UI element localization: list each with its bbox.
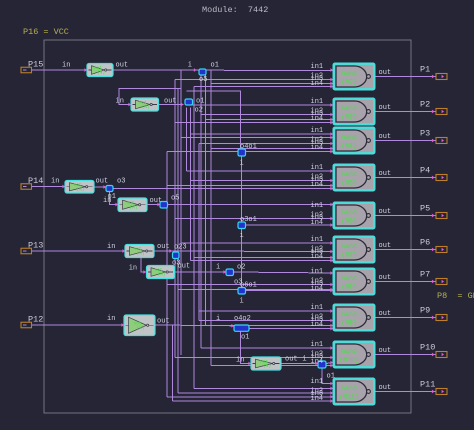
wire inv1 output row to gate1 in1 <box>113 69 333 72</box>
svg-text:i: i <box>240 160 244 168</box>
svg-text:P3: P3 <box>420 129 430 139</box>
NAND gate U5 -> P5 <box>333 202 375 229</box>
svg-text:nand: nand <box>341 134 357 141</box>
svg-text:(N): (N) <box>157 272 165 278</box>
svg-text:P7: P7 <box>420 270 430 280</box>
svg-text:nand: nand <box>341 171 357 178</box>
output port P1 <box>420 65 447 80</box>
svg-text:(N4): (N4) <box>341 143 357 150</box>
svg-text:nand: nand <box>341 70 357 77</box>
svg-text:in4: in4 <box>311 80 324 88</box>
svg-text:in1: in1 <box>311 63 324 71</box>
svg-text:in1: in1 <box>311 98 324 106</box>
svg-text:in1: in1 <box>311 127 324 135</box>
svg-text:in4: in4 <box>311 144 324 152</box>
svg-text:out: out <box>96 178 109 186</box>
input port P15 <box>21 60 43 73</box>
inverter V6 <box>147 266 175 279</box>
svg-text:o2: o2 <box>237 264 245 272</box>
input port P12 <box>21 315 43 328</box>
svg-text:P10: P10 <box>420 343 435 353</box>
svg-text:in4: in4 <box>311 321 324 329</box>
output port P4 <box>420 166 447 181</box>
NAND gate U3 -> P3 <box>333 127 375 154</box>
svg-text:P6: P6 <box>420 238 430 248</box>
svg-text:nand: nand <box>341 385 357 392</box>
svg-text:in: in <box>107 315 115 323</box>
output port P6 <box>420 238 447 253</box>
svg-text:o1: o1 <box>241 334 249 342</box>
output port P7 <box>420 270 447 285</box>
svg-text:nand: nand <box>341 209 357 216</box>
svg-text:(N): (N) <box>76 186 84 192</box>
wire gate10 out to P11 <box>375 391 436 393</box>
svg-text:in: in <box>236 357 244 365</box>
inverter V3 (P14 chain) <box>65 181 94 194</box>
wire P13 input row <box>32 250 126 252</box>
wire tap to inv2 <box>119 70 181 105</box>
svg-text:in: in <box>116 98 124 106</box>
svg-text:out: out <box>157 243 170 251</box>
wire connector o1 row to gate2 in1 <box>191 104 333 106</box>
svg-text:P1: P1 <box>420 65 430 75</box>
wire trunk net I <box>193 87 195 389</box>
svg-text:out: out <box>178 263 191 271</box>
svg-text:in1: in1 <box>311 378 324 386</box>
svg-text:Module: 7442: Module: 7442 <box>202 5 268 15</box>
net connector cb5 o1 <box>173 252 180 259</box>
svg-text:(N11): (N11) <box>339 394 359 401</box>
output port P11 <box>420 380 447 395</box>
svg-text:P12: P12 <box>28 315 43 325</box>
svg-text:i: i <box>240 232 244 240</box>
wire P14 input row <box>32 186 66 188</box>
input port P13 <box>21 241 43 254</box>
wire gate1 out to P1 <box>375 76 436 78</box>
svg-text:out: out <box>379 69 392 77</box>
wire connector down to inv4 <box>110 190 119 205</box>
svg-text:P9: P9 <box>420 306 430 316</box>
svg-text:P16 = VCC: P16 = VCC <box>23 27 69 37</box>
svg-text:o4o2: o4o2 <box>234 315 251 323</box>
wire gate2 out to P2 <box>375 111 436 113</box>
wire trunk net K <box>200 74 202 349</box>
svg-text:out: out <box>116 62 129 70</box>
schematic frame <box>44 40 411 413</box>
wire inv8 out to connector <box>281 363 318 365</box>
svg-text:i: i <box>240 298 244 306</box>
wire trunk net H <box>190 108 192 261</box>
svg-text:in: in <box>51 178 59 186</box>
svg-text:(N): (N) <box>263 363 271 369</box>
svg-text:o1: o1 <box>196 98 204 106</box>
wire connector down to inv8 <box>241 330 252 364</box>
net connector cb6 o1 <box>226 269 234 276</box>
svg-text:(N2): (N2) <box>341 79 357 86</box>
svg-text:nand: nand <box>341 275 357 282</box>
svg-text:i: i <box>302 356 306 364</box>
svg-text:in: in <box>62 62 70 70</box>
svg-text:P15: P15 <box>28 60 43 70</box>
svg-text:out: out <box>157 318 170 326</box>
NAND gate U4 -> P4 <box>333 164 375 191</box>
svg-text:o4o1: o4o1 <box>240 143 257 151</box>
svg-text:i: i <box>188 62 192 70</box>
wire trunk net M <box>210 71 212 366</box>
svg-text:P14: P14 <box>28 176 43 186</box>
net connector cb7 o1 wide <box>234 325 249 331</box>
wire tap to inv6 <box>141 251 146 272</box>
wire nD row to gate8 in4 <box>249 328 333 330</box>
svg-text:o1: o1 <box>211 62 219 70</box>
NAND gate U1 -> P1 <box>333 63 375 90</box>
wire connector down to gate10 in1 <box>322 368 333 384</box>
svg-text:in4: in4 <box>311 358 324 366</box>
wire inv5 out row to gate6 in2 <box>154 250 333 253</box>
svg-text:in: in <box>107 243 115 251</box>
svg-text:out: out <box>379 347 392 355</box>
svg-text:(N3): (N3) <box>341 114 357 121</box>
svg-text:nand: nand <box>341 311 357 318</box>
output port P10 <box>420 343 447 358</box>
svg-text:o1: o1 <box>327 373 335 381</box>
svg-text:in: in <box>103 197 111 205</box>
svg-text:o5: o5 <box>199 76 207 84</box>
svg-text:in4: in4 <box>311 219 324 227</box>
inverter V8 <box>251 357 281 370</box>
wire P15 input row <box>32 69 88 71</box>
wire trunk net D <box>172 325 174 401</box>
NAND gate U9 -> P10 <box>333 341 375 368</box>
wire P12 input row <box>32 324 125 326</box>
svg-text:(N): (N) <box>142 104 150 110</box>
svg-text:out: out <box>164 98 177 106</box>
svg-text:(N6): (N6) <box>341 218 357 225</box>
svg-text:o23: o23 <box>174 244 187 252</box>
svg-text:(N10): (N10) <box>339 357 359 364</box>
svg-text:in1: in1 <box>311 341 324 349</box>
svg-text:in1: in1 <box>311 164 324 172</box>
net connector cb2 o1 <box>185 99 193 105</box>
svg-text:o2: o2 <box>195 107 203 115</box>
wire gate3 out to P3 <box>375 140 436 142</box>
wire trunk net G <box>186 108 188 172</box>
wire connector column feed <box>187 91 241 149</box>
net connector cb4 o1 <box>160 202 168 209</box>
svg-text:P4: P4 <box>420 166 430 176</box>
output port P9 <box>420 306 447 321</box>
svg-text:P11: P11 <box>420 380 435 390</box>
wire trunk net L <box>205 74 207 326</box>
svg-text:i: i <box>216 264 220 272</box>
wire cb10 out row to gate5 in3 <box>246 224 334 226</box>
svg-text:(N): (N) <box>136 251 144 257</box>
wire trunk net C <box>174 80 176 358</box>
svg-text:out: out <box>379 208 392 216</box>
net connector cb1 o1 <box>199 69 206 75</box>
svg-text:P8 = GND: P8 = GND <box>437 291 474 301</box>
net connector cb9 o4o1 <box>238 149 246 156</box>
wire C row to gate7 in1 <box>234 272 334 273</box>
svg-text:out: out <box>379 133 392 141</box>
inverter V4 <box>118 198 147 212</box>
svg-text:out: out <box>150 197 163 205</box>
wire inv4 out to connector <box>148 204 161 206</box>
svg-text:in1: in1 <box>311 236 324 244</box>
wire inv7 out to connector <box>155 324 234 327</box>
svg-text:(N8): (N8) <box>341 284 357 291</box>
svg-text:nand: nand <box>341 243 357 250</box>
NAND gate U6 -> P6 <box>333 236 375 263</box>
svg-text:(N5): (N5) <box>341 180 357 187</box>
net connector cb11 o6o1 <box>238 288 246 295</box>
NAND gate U10 -> P11 <box>333 378 375 405</box>
wire inv2 out to connector <box>159 104 184 106</box>
wire trunk net F <box>180 89 182 356</box>
svg-text:o6o1: o6o1 <box>240 282 257 290</box>
output port P5 <box>420 204 447 219</box>
svg-text:out: out <box>379 310 392 318</box>
wire gate4 out to P4 <box>375 177 436 179</box>
inverter V7 (P12 chain) <box>124 315 155 336</box>
svg-text:out: out <box>285 356 298 364</box>
svg-text:(N9): (N9) <box>341 320 357 327</box>
svg-text:nand: nand <box>341 348 357 355</box>
wire trunk net E <box>177 89 179 394</box>
wire trunk net B <box>166 152 168 397</box>
wire inv6 out to connector <box>175 271 227 273</box>
svg-text:o3: o3 <box>117 178 125 186</box>
wire nB row to gate4 in4 <box>113 188 333 190</box>
wire connector column link 2 <box>241 228 243 288</box>
output port P3 <box>420 129 447 144</box>
svg-text:o3o1: o3o1 <box>240 216 257 224</box>
svg-text:out: out <box>379 384 392 392</box>
net connector cb3 o1 <box>106 186 113 192</box>
wire net B top row to gate3 in4 <box>167 151 333 153</box>
svg-text:o5: o5 <box>171 195 179 203</box>
svg-text:in4: in4 <box>311 115 324 123</box>
NAND gate U8 -> P9 <box>333 304 375 331</box>
wire gate7 out to P7 <box>375 281 436 283</box>
NAND gate U7 -> P7 <box>333 268 375 295</box>
input port P14 <box>21 176 43 189</box>
svg-text:in1: in1 <box>311 268 324 276</box>
svg-text:P2: P2 <box>420 100 430 110</box>
svg-text:P13: P13 <box>28 241 43 251</box>
wire gate6 out to P6 <box>375 249 436 251</box>
inverter V1 (P15 chain) <box>87 64 113 77</box>
svg-text:out: out <box>379 242 392 250</box>
wire B row to gate5 in1 <box>168 204 334 206</box>
svg-text:(N): (N) <box>97 70 105 76</box>
svg-text:(N): (N) <box>129 204 137 210</box>
svg-text:i: i <box>216 315 220 323</box>
inverter V5 (P13 chain) <box>125 245 154 258</box>
svg-text:in: in <box>129 265 137 273</box>
wire gate9 out to P10 <box>375 354 436 356</box>
svg-text:in1: in1 <box>311 202 324 210</box>
svg-text:in4: in4 <box>311 285 324 293</box>
svg-text:(N): (N) <box>136 325 144 331</box>
net connector cb8 o1 <box>318 361 326 368</box>
svg-text:in4: in4 <box>311 395 324 403</box>
wire trunk net J <box>198 144 200 321</box>
svg-text:in4: in4 <box>311 181 324 189</box>
svg-text:in1: in1 <box>311 304 324 312</box>
svg-text:(N7): (N7) <box>341 252 357 259</box>
wire connector column link 1 <box>241 156 243 222</box>
NAND gate U2 -> P2 <box>333 98 375 125</box>
svg-text:P5: P5 <box>420 204 430 214</box>
svg-text:out: out <box>379 104 392 112</box>
net connector cb10 o3o1 <box>238 222 246 229</box>
svg-text:out: out <box>379 274 392 282</box>
wire inv3 out to connector <box>94 186 106 188</box>
wire gate5 out to P5 <box>375 215 436 217</box>
output port P2 <box>420 100 447 115</box>
wire D row to gate9 in3 <box>326 363 333 364</box>
wire gate8 out to P9 <box>375 317 436 319</box>
svg-text:in4: in4 <box>311 253 324 261</box>
svg-text:out: out <box>379 170 392 178</box>
inverter V2 <box>131 98 159 111</box>
wire cb11 out row to gate7 in4 <box>246 290 334 292</box>
svg-text:nand: nand <box>341 105 357 112</box>
